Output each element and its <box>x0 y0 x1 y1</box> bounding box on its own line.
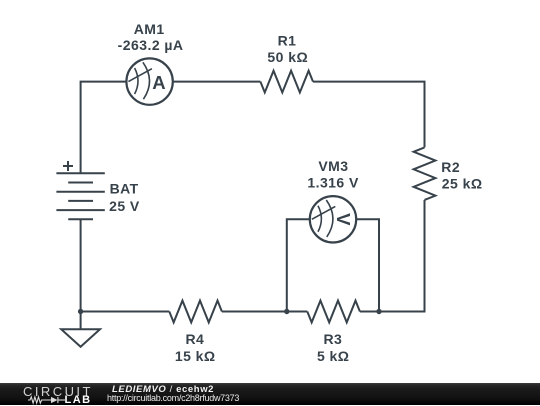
wire R3 to R4 <box>222 311 307 313</box>
svg-text:1.316 V: 1.316 V <box>307 175 359 191</box>
circuitlab logo symbols <box>27 395 67 405</box>
svg-text:50 kΩ: 50 kΩ <box>267 49 308 65</box>
svg-text:AM1: AM1 <box>134 21 165 37</box>
node dot left voltmeter junction <box>284 309 289 314</box>
resistor R4 <box>169 301 222 323</box>
wire battery top to ammeter <box>81 82 127 174</box>
wire R2 to bottom-right corner <box>360 200 425 312</box>
footer bar <box>0 383 540 405</box>
resistor R3 <box>307 301 360 323</box>
wire ammeter to R1 <box>173 81 261 83</box>
wire R1 to top-right corner down to R2 <box>313 82 425 148</box>
node dot ground junction <box>78 309 83 314</box>
circuitlab logo text <box>23 384 93 399</box>
footer title <box>112 384 214 395</box>
wire battery bottom <box>80 219 82 311</box>
resistor R1 <box>260 71 313 93</box>
wire voltmeter right branch <box>356 219 379 311</box>
svg-text:5 kΩ: 5 kΩ <box>317 348 350 364</box>
svg-text:15 kΩ: 15 kΩ <box>175 348 216 364</box>
svg-text:-263.2 µA: -263.2 µA <box>118 37 184 53</box>
svg-text:V: V <box>333 213 354 226</box>
svg-text:R4: R4 <box>186 331 205 347</box>
wire voltmeter left branch <box>287 219 310 311</box>
wire R4 to ground node <box>81 311 170 313</box>
svg-text:R3: R3 <box>324 331 343 347</box>
svg-text:VM3: VM3 <box>318 158 348 174</box>
plus sign <box>63 165 73 167</box>
svg-text:BAT: BAT <box>110 180 139 196</box>
svg-text:R2: R2 <box>441 159 460 175</box>
svg-text:R1: R1 <box>278 33 297 49</box>
svg-text:25 kΩ: 25 kΩ <box>442 175 483 191</box>
svg-text:25 V: 25 V <box>109 198 140 214</box>
node dot right voltmeter junction <box>376 309 381 314</box>
svg-text:A: A <box>152 72 165 93</box>
footer url <box>107 393 239 403</box>
battery BAT <box>56 161 104 219</box>
ground <box>61 312 100 347</box>
resistor R2 <box>414 147 436 200</box>
voltmeter VM3 <box>310 196 356 242</box>
ammeter AM1 <box>126 58 172 104</box>
